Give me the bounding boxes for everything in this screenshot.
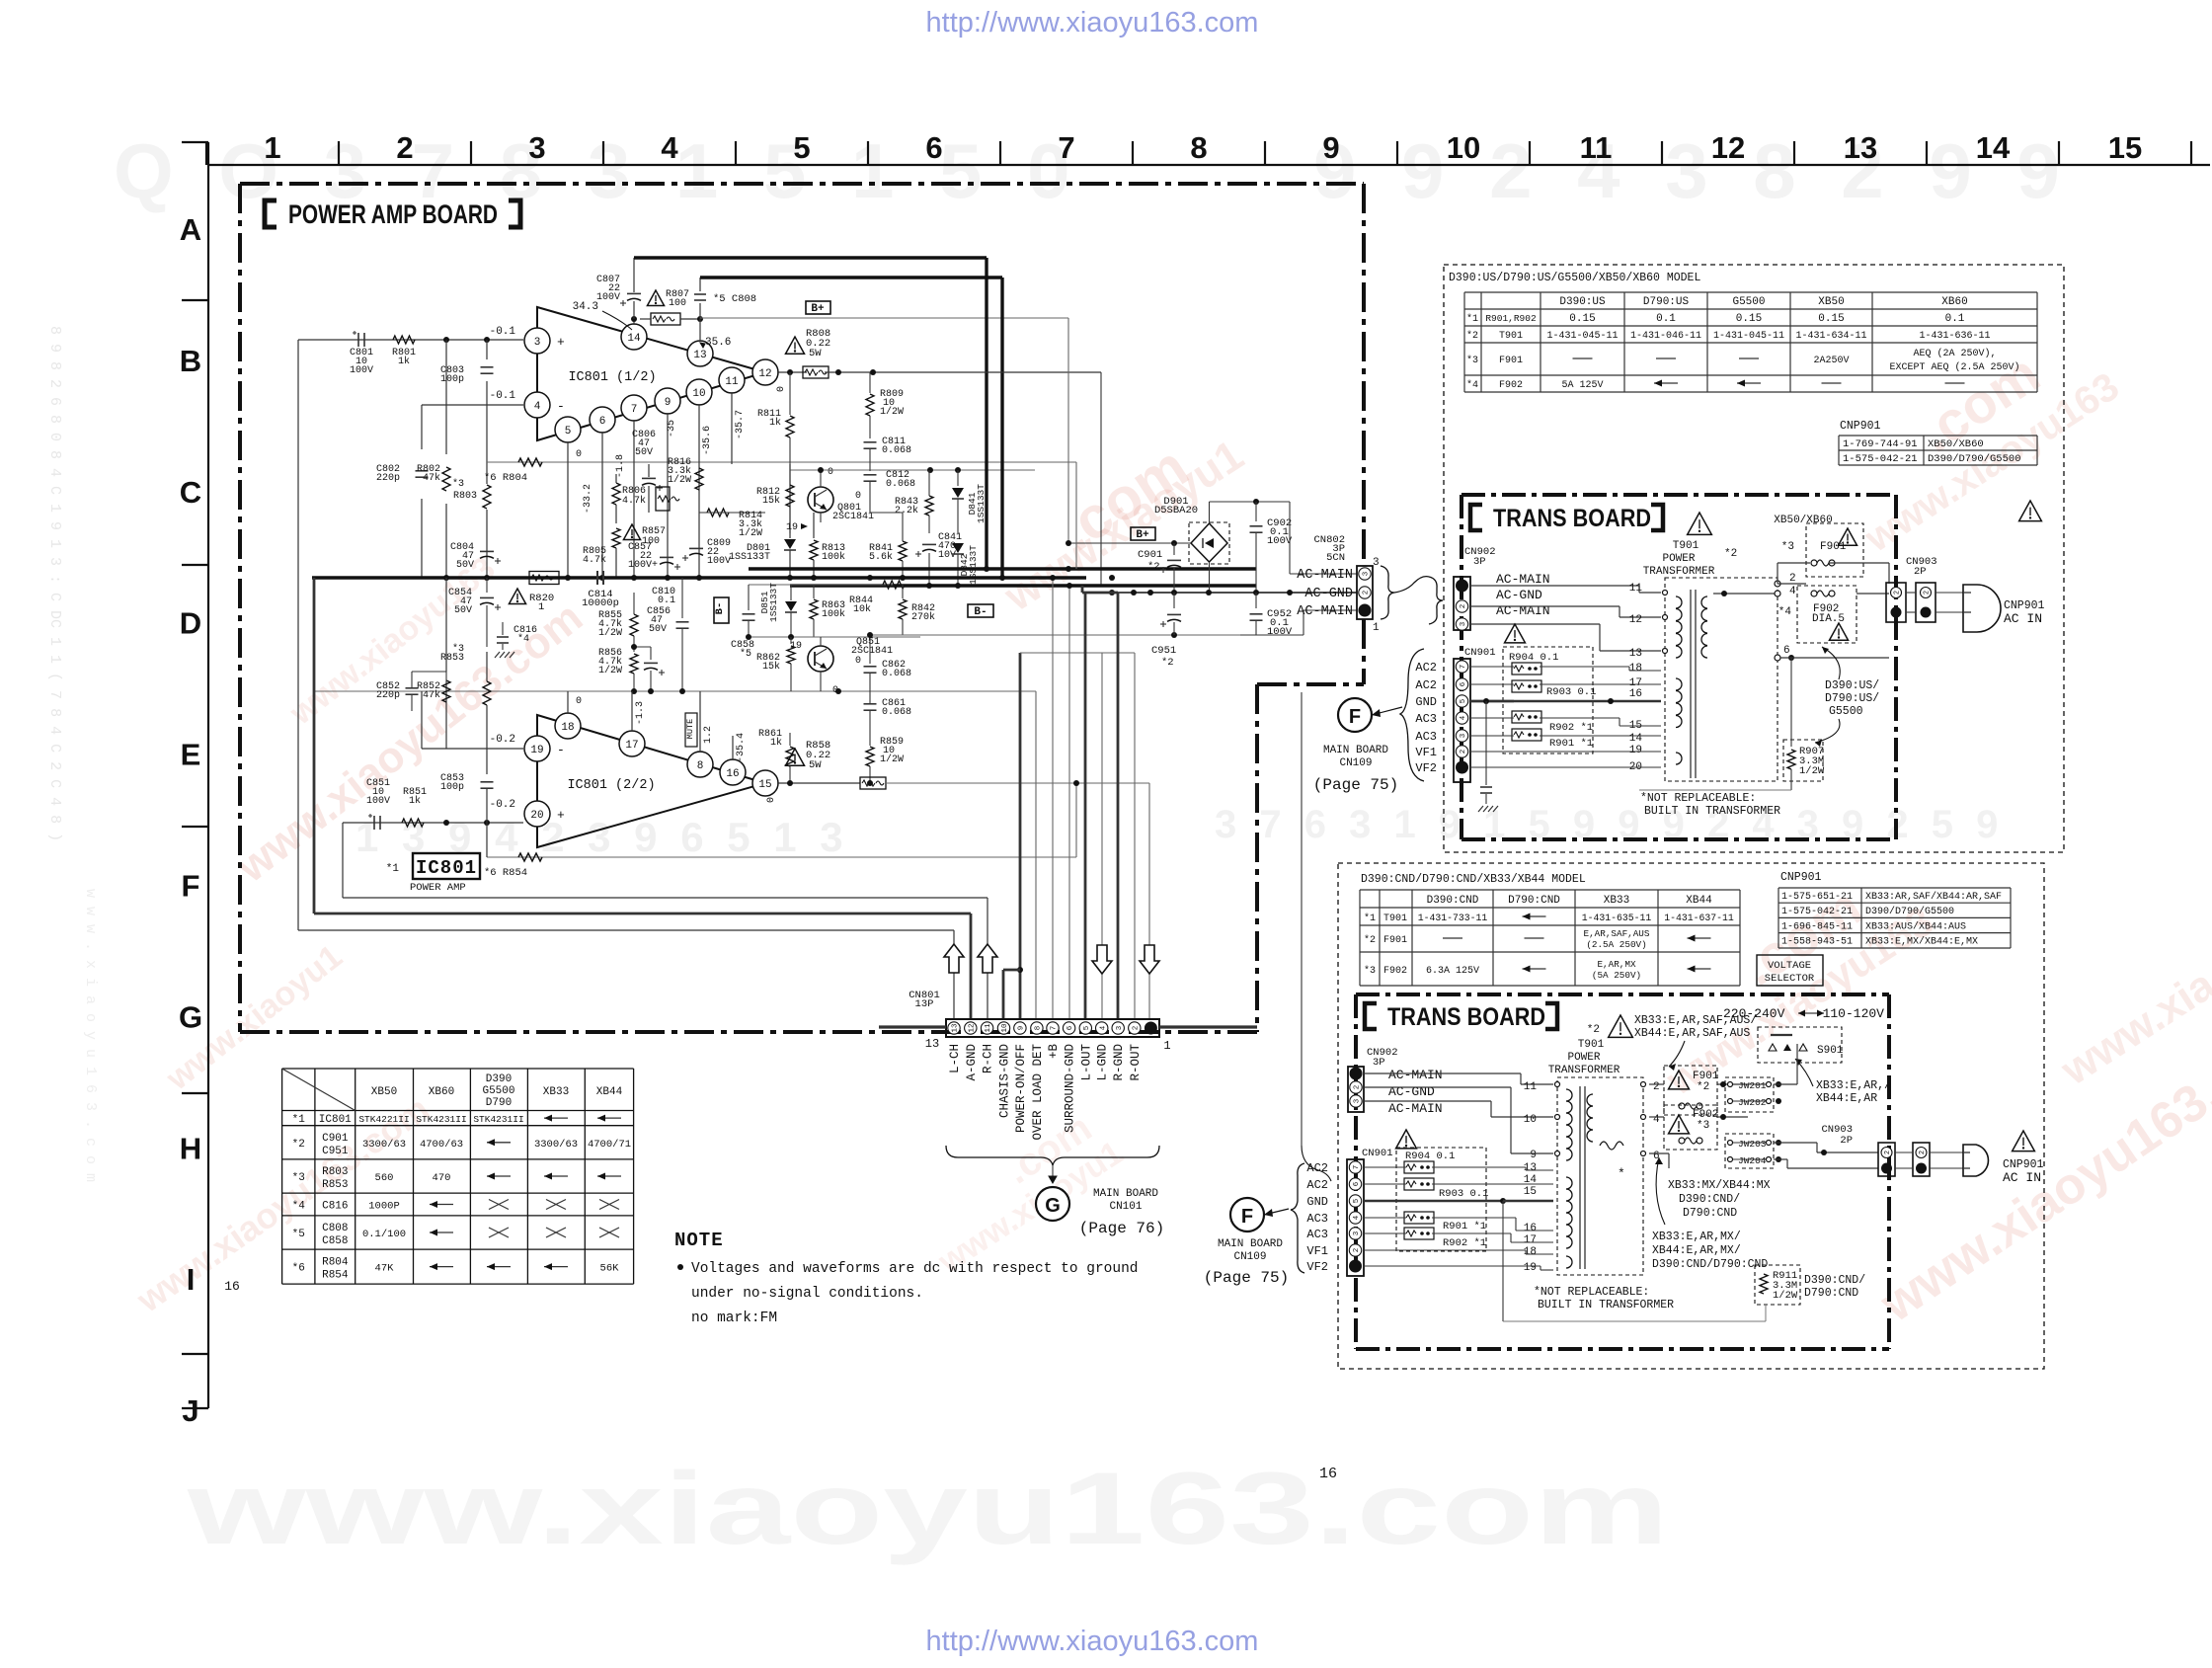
svg-text:STK4231II: STK4231II [416, 1114, 466, 1125]
svg-text:14: 14 [1629, 733, 1643, 745]
svg-text:AEQ (2A 250V),: AEQ (2A 250V), [1913, 348, 1996, 359]
svg-text:1SS133T: 1SS133T [768, 583, 779, 622]
svg-text:CN901: CN901 [1464, 647, 1496, 659]
svg-text:GND: GND [1306, 1195, 1328, 1209]
svg-text:1: 1 [264, 130, 280, 165]
svg-text:http://www.xiaoyu163.com: http://www.xiaoyu163.com [926, 7, 1259, 39]
svg-text:*6 R854: *6 R854 [484, 867, 527, 879]
svg-text:19: 19 [1524, 1262, 1537, 1274]
svg-text:11: 11 [725, 376, 739, 388]
pin 5 [555, 417, 581, 442]
svg-text:*5: *5 [292, 1229, 305, 1240]
svg-text:0.068: 0.068 [882, 445, 911, 456]
svg-text:100V: 100V [366, 796, 390, 807]
svg-text:2A250V: 2A250V [1813, 356, 1849, 366]
svg-text:TRANS BOARD: TRANS BOARD [1493, 505, 1651, 532]
resistor R801 [393, 336, 415, 344]
svg-text:D390:US: D390:US [1559, 296, 1606, 308]
svg-text:C816: C816 [322, 1201, 348, 1213]
svg-text:+: + [557, 335, 565, 350]
svg-text:D790:US/: D790:US/ [1825, 692, 1879, 705]
arrow to G circle [1052, 1165, 1054, 1183]
warning R808 [786, 337, 805, 354]
wire pin6 feeder [1068, 586, 1070, 1019]
svg-text:-35.6: -35.6 [702, 426, 713, 455]
svg-text:11: 11 [985, 1023, 992, 1033]
svg-text:E,AR,MX: E,AR,MX [1597, 959, 1635, 970]
svg-text:-0.2: -0.2 [490, 799, 515, 811]
svg-text:220p: 220p [376, 473, 400, 484]
svg-text:7: 7 [1460, 665, 1467, 670]
enclosure wire board1 [1639, 789, 1791, 791]
vertical wire GND loop board2 [1502, 1201, 1504, 1321]
capacitor C901 [1173, 543, 1175, 555]
svg-text:http://www.xiaoyu163.com: http://www.xiaoyu163.com [926, 1626, 1259, 1657]
svg-text:AC-GND: AC-GND [1496, 588, 1542, 602]
svg-text:D5SBA20: D5SBA20 [1154, 505, 1198, 516]
svg-text:C858: C858 [322, 1235, 348, 1247]
svg-text:1/2W: 1/2W [1773, 1290, 1798, 1302]
svg-text:XB44:E,AR,SAF,AUS: XB44:E,AR,SAF,AUS [1634, 1027, 1750, 1040]
pin 9 [655, 388, 680, 414]
svg-text:H: H [180, 1131, 201, 1165]
svg-text:C951: C951 [1151, 645, 1176, 657]
wire transformer 6 board2 [1649, 1152, 1669, 1154]
svg-text:8: 8 [697, 760, 704, 772]
svg-text:XB60: XB60 [429, 1086, 454, 1098]
svg-text:*3: *3 [452, 478, 464, 490]
resistor R855 [630, 614, 638, 636]
B- boxed label rotated [714, 597, 729, 623]
svg-text:TRANSFORMER: TRANSFORMER [1548, 1065, 1620, 1076]
svg-text:VF2: VF2 [1415, 761, 1437, 775]
svg-text:-0.1: -0.1 [490, 326, 516, 338]
brace under CN801 labels [946, 1146, 1159, 1165]
wire bus out CN801 right [1159, 1025, 1257, 1028]
svg-text:14: 14 [627, 333, 641, 345]
svg-text:6: 6 [1066, 1025, 1074, 1030]
svg-text:8: 8 [1035, 1026, 1043, 1031]
capacitor C854 [486, 578, 488, 593]
svg-text:47k: 47k [423, 472, 440, 484]
resistor R854 [518, 853, 542, 861]
transistor Q801 [808, 487, 833, 513]
wires CN902 to transformer board2 [1364, 1072, 1521, 1074]
grid ruler top ticks [205, 141, 207, 165]
long node line y600 [1086, 592, 1357, 594]
svg-text:SURROUND-GND: SURROUND-GND [1064, 1044, 1077, 1133]
svg-text:5: 5 [1083, 1025, 1091, 1030]
svg-text:A: A [180, 212, 201, 247]
svg-text:F901: F901 [1499, 356, 1523, 366]
enclosure thin wire board2 [1668, 1168, 1670, 1234]
pin 6 [590, 407, 615, 433]
svg-text:3: 3 [1460, 621, 1467, 626]
svg-text:B+: B+ [811, 303, 825, 315]
svg-text:100: 100 [669, 298, 686, 309]
wires CN901 to transformer board1 [1470, 666, 1514, 668]
wire feedback ch1 R804 [487, 461, 1076, 463]
capacitor C902 [1255, 502, 1257, 521]
svg-text:1k: 1k [398, 356, 410, 367]
svg-text:0.1: 0.1 [1945, 313, 1965, 325]
svg-text:100k: 100k [822, 608, 845, 620]
svg-text:(2.5A 250V): (2.5A 250V) [1586, 939, 1646, 950]
svg-text:5CN: 5CN [1326, 552, 1345, 564]
resistor R806 [612, 483, 620, 505]
wire y519 segment [870, 512, 903, 514]
svg-text:D390:US/: D390:US/ [1825, 679, 1879, 692]
svg-text:-35.7: -35.7 [735, 410, 746, 439]
POWER AMP BOARD title [265, 200, 276, 227]
svg-text:50V: 50V [649, 624, 667, 635]
diode D841 [957, 470, 959, 486]
wire bundle feeder lines [297, 340, 299, 930]
svg-text:2: 2 [1363, 591, 1371, 596]
svg-text:*2: *2 [1364, 934, 1376, 946]
svg-text:T901: T901 [1673, 540, 1699, 552]
svg-text:7: 7 [1353, 1165, 1361, 1170]
svg-text:9: 9 [1018, 1026, 1026, 1031]
node ch2 input junctions [443, 820, 449, 826]
svg-text:CNP901: CNP901 [1840, 420, 1881, 433]
svg-text:2P: 2P [1914, 566, 1927, 578]
wires jumpers to CN903 board2 [1774, 1083, 1797, 1085]
svg-text:2: 2 [1460, 750, 1467, 755]
svg-text:0.068: 0.068 [882, 707, 911, 718]
svg-text:3: 3 [1373, 557, 1380, 569]
svg-text:L-OUT: L-OUT [1079, 1044, 1093, 1081]
node ch1 input junctions [443, 337, 449, 343]
svg-text:6: 6 [1460, 681, 1467, 686]
wire bus into CN801 left [879, 1025, 946, 1028]
brace into CN902 board1 [1429, 577, 1443, 624]
svg-text:10V: 10V [938, 550, 956, 561]
svg-text:12: 12 [1711, 130, 1745, 165]
arrow S901 callout [1795, 1059, 1813, 1086]
svg-text:3300/63: 3300/63 [362, 1139, 406, 1151]
svg-text:JW201: JW201 [1738, 1080, 1767, 1091]
svg-text:AC IN: AC IN [2004, 611, 2042, 626]
svg-text:XB33:E,MX/XB44:E,MX: XB33:E,MX/XB44:E,MX [1865, 936, 1978, 948]
svg-text:D390: D390 [486, 1073, 512, 1085]
svg-text:*4: *4 [517, 633, 529, 645]
svg-text:1-575-042-21: 1-575-042-21 [1781, 907, 1853, 917]
svg-text:VF1: VF1 [1415, 746, 1437, 759]
svg-text:*NOT REPLACEABLE:: *NOT REPLACEABLE: [1640, 792, 1756, 805]
svg-text:G5500: G5500 [1829, 705, 1863, 718]
svg-text:*3: *3 [1466, 355, 1478, 366]
wire ch2 output line y792 [886, 782, 1149, 784]
resistor R816 [695, 468, 703, 490]
svg-text:1-558-943-51: 1-558-943-51 [1781, 937, 1853, 948]
svg-text:*2: *2 [1697, 1081, 1709, 1093]
svg-text:A-GND: A-GND [965, 1044, 979, 1081]
svg-text:CN101: CN101 [1109, 1201, 1142, 1213]
svg-text:*3: *3 [1364, 965, 1376, 977]
svg-text:1/2W: 1/2W [880, 406, 904, 418]
svg-text:D: D [180, 606, 201, 641]
svg-text:XB33:E,AR,SAF,AUS/: XB33:E,AR,SAF,AUS/ [1634, 1014, 1757, 1027]
svg-text:*NOT REPLACEABLE:: *NOT REPLACEABLE: [1534, 1286, 1649, 1299]
resistor R852 [442, 680, 450, 702]
wire q851 stubs [820, 637, 822, 646]
svg-text:15k: 15k [762, 661, 780, 673]
node line y643 [870, 634, 1240, 636]
svg-text:VF1: VF1 [1306, 1244, 1328, 1258]
resistor R851 [402, 819, 424, 827]
svg-text:5: 5 [565, 426, 572, 437]
svg-text:under no-signal conditions.: under no-signal conditions. [691, 1286, 923, 1302]
svg-text:C901: C901 [1138, 549, 1162, 561]
svg-text:(Page 75): (Page 75) [1313, 776, 1398, 794]
diode D842 [952, 543, 964, 553]
svg-text:100V: 100V [596, 292, 620, 303]
svg-text:4: 4 [534, 401, 541, 413]
svg-text:+: + [557, 808, 565, 823]
svg-text:(5A 250V): (5A 250V) [1592, 970, 1641, 981]
node line y700 mute rail [314, 690, 1036, 692]
svg-text:0.15: 0.15 [1818, 313, 1844, 325]
svg-text:XB50: XB50 [1818, 296, 1844, 308]
parts value table [282, 1068, 634, 1070]
svg-text:3: 3 [1354, 1098, 1362, 1103]
svg-text:R901 *1: R901 *1 [1443, 1221, 1486, 1232]
brace right of CN802 [1381, 566, 1394, 619]
MUTE boxed label [685, 713, 697, 747]
svg-text:E,AR,SAF,AUS: E,AR,SAF,AUS [1584, 928, 1650, 939]
svg-text:15: 15 [758, 779, 771, 791]
svg-text:13: 13 [1844, 130, 1877, 165]
AC plug board2 [1963, 1145, 1988, 1176]
svg-text:13: 13 [1629, 648, 1642, 660]
svg-text:D390:CND/D790:CND/XB33/XB44 MO: D390:CND/D790:CND/XB33/XB44 MODEL [1361, 873, 1586, 886]
svg-text:16: 16 [1319, 1466, 1337, 1482]
fuse F901 board2 [1664, 1066, 1717, 1115]
svg-text:+B: +B [1047, 1044, 1061, 1060]
svg-text:3: 3 [534, 337, 541, 349]
svg-text:D390:CND: D390:CND [1427, 895, 1479, 907]
capacitor C816 and ground [502, 622, 504, 635]
svg-text:J: J [182, 1393, 198, 1428]
wires CN902 to transformer board1 [1470, 585, 1639, 587]
svg-text:D390/D790/G5500: D390/D790/G5500 [1865, 906, 1954, 917]
svg-text:S901: S901 [1817, 1045, 1844, 1057]
svg-text:4.7k: 4.7k [583, 554, 606, 566]
resistor R841 [899, 541, 907, 561]
svg-text:TRANSFORMER: TRANSFORMER [1643, 566, 1715, 578]
wire main bus B2 thick [312, 576, 1086, 579]
grid ruler left ticks [182, 141, 208, 143]
svg-text:470: 470 [433, 1172, 451, 1184]
svg-text:100V+: 100V+ [628, 560, 658, 571]
svg-text:D390:US/D790:US/G5500/XB50/XB6: D390:US/D790:US/G5500/XB50/XB60 MODEL [1449, 272, 1700, 284]
svg-text:0.1: 0.1 [658, 596, 675, 606]
svg-text:13: 13 [952, 1023, 960, 1033]
diode D801 [789, 464, 791, 538]
svg-text:6: 6 [599, 416, 606, 428]
svg-text:19: 19 [786, 522, 798, 533]
circle F2 main board CN109 [1230, 1198, 1264, 1231]
svg-text:0: 0 [576, 696, 582, 707]
svg-text:0.15: 0.15 [1736, 313, 1762, 325]
svg-text:AC-MAIN: AC-MAIN [1388, 1068, 1443, 1082]
secondary wires to CN903 board1 [1713, 593, 1777, 595]
svg-text:1-431-733-11: 1-431-733-11 [1418, 913, 1488, 923]
resistor R844 [883, 581, 905, 589]
capacitor C951 [1173, 593, 1175, 608]
svg-text:BUILT IN TRANSFORMER: BUILT IN TRANSFORMER [1538, 1299, 1674, 1311]
B+ label boxed 2 [1131, 527, 1155, 540]
pin 7 [621, 395, 647, 421]
svg-text:IC801 (2/2): IC801 (2/2) [567, 778, 655, 793]
svg-text:R902 *1: R902 *1 [1443, 1237, 1486, 1249]
svg-text:1SS133T: 1SS133T [729, 552, 770, 563]
jumpers JW203 JW204 board2 [1725, 1134, 1774, 1168]
svg-text:270k: 270k [911, 611, 935, 623]
pin 11 [719, 367, 745, 393]
svg-text:TRANS BOARD: TRANS BOARD [1387, 1003, 1545, 1031]
svg-text:AC IN: AC IN [2003, 1170, 2041, 1185]
svg-text:16: 16 [1629, 688, 1642, 700]
warning T901 board2 [1609, 1015, 1633, 1037]
svg-text:35.6: 35.6 [705, 337, 731, 349]
wire ch1 input [298, 339, 523, 341]
svg-text:XB33:AR,SAF/XB44:AR,SAF: XB33:AR,SAF/XB44:AR,SAF [1865, 891, 2002, 903]
svg-text:-35: -35 [667, 420, 677, 437]
fusible resistor R858 boxed [860, 777, 886, 789]
wire q801 node [820, 470, 822, 487]
wires CN901 to transformer board2 [1364, 1166, 1406, 1168]
svg-text:10: 10 [1447, 130, 1480, 165]
svg-text:12: 12 [1629, 614, 1642, 626]
resistor R803 [486, 405, 488, 484]
TRANS BOARD 2 border [1356, 993, 1889, 996]
svg-text:F901: F901 [1820, 541, 1847, 553]
svg-text:-1.8: -1.8 [615, 454, 626, 478]
svg-text:POWER AMP: POWER AMP [410, 882, 466, 894]
svg-text:G5500: G5500 [1732, 296, 1765, 308]
svg-text:20: 20 [530, 810, 543, 822]
svg-text:100p: 100p [440, 374, 464, 385]
switch S901 board2 [1758, 1027, 1842, 1063]
wire bridge bottom [1209, 562, 1211, 593]
svg-text:B-: B- [714, 602, 726, 615]
secondary squiggle board2 [1600, 1142, 1623, 1150]
capacitor C857 [660, 556, 673, 558]
node line y645 [749, 636, 920, 638]
svg-text:*1: *1 [1364, 913, 1376, 924]
svg-text:1-575-042-21: 1-575-042-21 [1843, 453, 1918, 465]
pin 12 output wire [752, 359, 778, 385]
svg-text:Voltages and waveforms are dc: Voltages and waveforms are dc with respe… [691, 1261, 1138, 1277]
svg-text:F: F [1241, 1206, 1253, 1228]
svg-text:2: 2 [1884, 1151, 1892, 1154]
svg-text:6: 6 [925, 130, 942, 165]
svg-text:F901: F901 [1383, 935, 1407, 946]
grid ruler left line [207, 142, 209, 1408]
wire B+ line [700, 317, 1068, 319]
thick wire y600 outputs [1082, 592, 1118, 595]
svg-text:10k: 10k [853, 603, 871, 615]
warning triangle T901 area [1688, 513, 1712, 534]
svg-text:D390:CND/: D390:CND/ [1679, 1193, 1740, 1206]
svg-text:*4: *4 [1466, 379, 1478, 391]
svg-text:*1: *1 [292, 1114, 306, 1126]
capacitor C952 [1255, 593, 1257, 608]
svg-text:1: 1 [1163, 1039, 1170, 1053]
svg-text:4.7k: 4.7k [622, 495, 646, 507]
svg-text:CN109: CN109 [1339, 757, 1372, 769]
svg-text:0: 0 [828, 467, 833, 478]
svg-text:D790:CND: D790:CND [1683, 1207, 1737, 1220]
svg-text:12: 12 [758, 368, 771, 380]
capacitor C802 [416, 470, 429, 472]
wire CN802 down thick [1363, 619, 1365, 684]
svg-text:1/2W: 1/2W [668, 474, 691, 486]
svg-text:1-431-045-11: 1-431-045-11 [1713, 331, 1784, 342]
svg-text:XB33: XB33 [1604, 895, 1629, 907]
svg-text:2: 2 [396, 130, 413, 165]
IC801 part label box [413, 853, 480, 879]
svg-text:DIA.5: DIA.5 [1812, 613, 1845, 625]
svg-text:100V: 100V [707, 556, 731, 567]
pin 15 output [752, 770, 778, 796]
squiggle wire to trans board [1394, 577, 1429, 593]
svg-text:4: 4 [1099, 1025, 1107, 1030]
resistor R911 board2 [1755, 1265, 1800, 1305]
svg-text:*6 R804: *6 R804 [484, 472, 527, 484]
svg-text:4700/71: 4700/71 [588, 1139, 631, 1151]
svg-text:13P: 13P [915, 998, 934, 1010]
capacitor C858 [748, 585, 750, 610]
svg-text:*3: *3 [1781, 541, 1794, 553]
svg-text:BUILT IN TRANSFORMER: BUILT IN TRANSFORMER [1644, 805, 1780, 818]
svg-text:2: 2 [1653, 1081, 1660, 1093]
svg-text:G: G [179, 999, 202, 1034]
svg-text:50V: 50V [456, 560, 474, 571]
pin 3 [524, 328, 550, 354]
svg-text:2: 2 [1924, 591, 1932, 595]
svg-text:D390:CND/: D390:CND/ [1804, 1274, 1865, 1287]
svg-text:5W: 5W [809, 348, 822, 359]
svg-text:9: 9 [1530, 1150, 1537, 1161]
wire feedback ch2 R854 [487, 856, 1076, 858]
svg-text:1-431-046-11: 1-431-046-11 [1630, 331, 1701, 342]
dotted region box CND models [1338, 863, 2044, 1369]
svg-text:15: 15 [2108, 130, 2142, 165]
svg-text:I: I [187, 1262, 196, 1297]
svg-text:1-431-637-11: 1-431-637-11 [1664, 913, 1734, 923]
block arrows above CN801 [944, 944, 964, 973]
svg-text:T901: T901 [1499, 331, 1523, 342]
svg-text:*3: *3 [452, 643, 464, 655]
connector CN802 [1357, 566, 1373, 619]
svg-text:18: 18 [1629, 663, 1642, 675]
svg-text:R803: R803 [322, 1166, 348, 1178]
svg-text:10000p: 10000p [582, 597, 619, 609]
warning R858 [786, 749, 805, 765]
fusible resistor R808 [803, 366, 829, 378]
svg-text:R902 *1: R902 *1 [1549, 722, 1593, 734]
svg-text:G5500: G5500 [482, 1085, 514, 1097]
svg-text:VOLTAGE: VOLTAGE [1768, 960, 1811, 972]
wire pin9 thick feeder [1019, 653, 1022, 1019]
capacitor C811 [864, 441, 877, 443]
svg-text:2: 2 [1460, 604, 1467, 609]
svg-text:11: 11 [1629, 583, 1643, 595]
svg-text:AC2: AC2 [1415, 661, 1437, 675]
